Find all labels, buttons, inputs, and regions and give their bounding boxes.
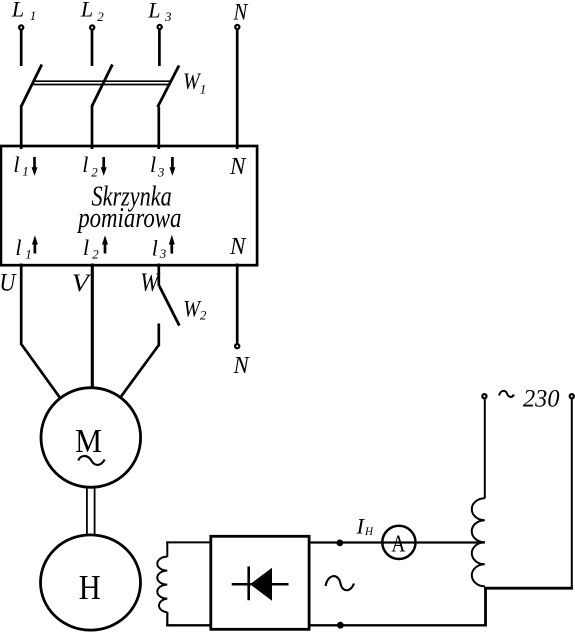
- svg-text:L: L: [11, 0, 24, 22]
- label W1: [183, 69, 206, 97]
- junction dot bottom: [337, 622, 344, 629]
- svg-text:l: l: [83, 235, 89, 260]
- svg-text:W: W: [183, 69, 201, 94]
- transformer right wire: [571, 399, 573, 590]
- switch W1 blade pole 1: [21, 65, 41, 107]
- svg-text:3: 3: [159, 246, 167, 261]
- arrow l3 out: [169, 235, 175, 254]
- diode line: [232, 583, 289, 586]
- junction dot top: [336, 540, 343, 547]
- label l1 out: [15, 235, 31, 262]
- svg-text:1: 1: [30, 8, 37, 23]
- wire N out drop: [236, 264, 239, 344]
- label l2 in: [82, 152, 98, 179]
- svg-text:2: 2: [200, 308, 207, 323]
- wire pole2 to box: [91, 106, 94, 150]
- arrow l2 out: [102, 235, 108, 253]
- diode cathode bar: [247, 566, 250, 600]
- transformer left wire: [484, 399, 486, 498]
- rectifier box: [211, 536, 309, 629]
- terminal L1: [19, 25, 23, 29]
- AC tilde: [326, 576, 355, 590]
- svg-text:N: N: [233, 0, 249, 25]
- wire rectifier to transformer bottom: [310, 624, 486, 626]
- svg-text:l: l: [150, 152, 156, 177]
- svg-text:2: 2: [97, 9, 104, 24]
- switch W2 blade: [159, 286, 179, 326]
- switch W1 blade pole 2: [92, 65, 112, 107]
- svg-text:A: A: [391, 531, 405, 558]
- wire W stub: [157, 264, 160, 287]
- svg-text:1: 1: [200, 82, 207, 97]
- wire N drop: [236, 30, 239, 149]
- field choke wire top: [166, 541, 210, 556]
- svg-text:N: N: [229, 153, 247, 180]
- svg-text:l: l: [152, 236, 158, 261]
- svg-text:U: U: [0, 270, 17, 297]
- svg-text:230: 230: [523, 385, 560, 412]
- transformer terminal left: [482, 394, 486, 398]
- svg-text:M: M: [75, 423, 102, 460]
- wire U: [21, 264, 60, 398]
- transformer terminal right: [570, 394, 574, 398]
- motor M circle: [41, 388, 141, 488]
- svg-text:N: N: [229, 233, 247, 260]
- terminal L3: [158, 25, 162, 29]
- wire L1 drop: [20, 30, 23, 66]
- motor tilde: [78, 456, 104, 465]
- wire V: [91, 264, 94, 389]
- shaft coupling: [87, 487, 95, 537]
- label W2: [183, 297, 207, 323]
- transformer coil: [472, 498, 485, 586]
- arrow l1 out: [32, 235, 38, 253]
- svg-text:2: 2: [91, 165, 98, 180]
- svg-text:W: W: [183, 297, 201, 322]
- label l3 out: [152, 236, 167, 262]
- svg-text:1: 1: [22, 164, 29, 179]
- field choke coil: [157, 557, 167, 613]
- svg-text:3: 3: [157, 164, 165, 179]
- wire L2 drop: [91, 30, 94, 66]
- svg-text:l: l: [15, 235, 21, 260]
- label l1 in: [13, 152, 28, 179]
- terminal N out: [235, 344, 239, 348]
- wire pole3 to box: [157, 107, 160, 150]
- box Skrzynka pomiarowa: [1, 146, 257, 265]
- svg-text:l: l: [13, 152, 19, 177]
- wire pole1 to box: [20, 106, 23, 150]
- label L3: [147, 0, 172, 24]
- terminal L2: [90, 25, 94, 29]
- svg-text:H: H: [79, 569, 101, 607]
- arrow l2 in: [101, 157, 107, 176]
- wire rectifier to transformer top: [310, 541, 485, 543]
- label l2 out: [83, 235, 99, 262]
- svg-text:N: N: [233, 353, 251, 379]
- diode triangle: [250, 568, 272, 601]
- wire W2 to motor: [121, 324, 159, 397]
- svg-text:pomiarowa: pomiarowa: [77, 203, 182, 234]
- switch W1 blade pole 3: [158, 66, 179, 108]
- svg-text:3: 3: [164, 9, 172, 24]
- transformer bottom wire: [484, 587, 573, 627]
- label l3 in: [150, 152, 165, 179]
- label IH: [356, 514, 374, 539]
- arrow l3 in: [169, 157, 175, 176]
- label L2: [80, 0, 104, 24]
- svg-text:1: 1: [25, 247, 32, 262]
- label ~230: [499, 385, 560, 412]
- generator H circle: [41, 535, 141, 630]
- label L1: [11, 0, 36, 23]
- svg-text:L: L: [80, 0, 93, 22]
- switch W1 coupling bar: [34, 81, 171, 84]
- svg-text:l: l: [82, 152, 88, 177]
- wire L3 drop: [158, 30, 161, 66]
- arrow l1 in: [32, 157, 38, 176]
- field choke wire bottom: [166, 612, 210, 626]
- svg-text:2: 2: [92, 247, 99, 262]
- ammeter A: [382, 526, 415, 559]
- terminal N: [235, 25, 239, 29]
- svg-text:L: L: [147, 0, 160, 23]
- svg-text:H: H: [364, 526, 374, 538]
